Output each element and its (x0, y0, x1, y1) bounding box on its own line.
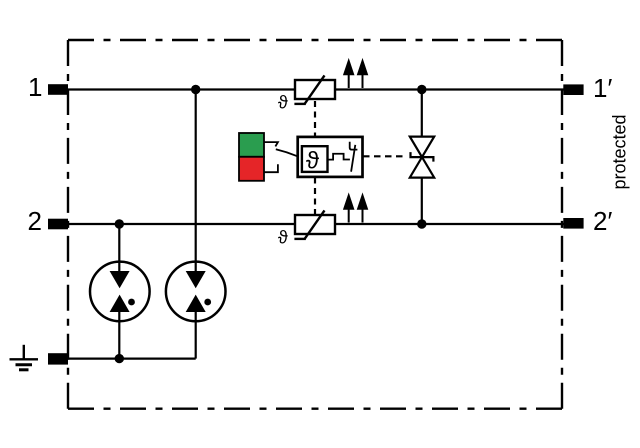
terminal 1 (48, 84, 68, 95)
svg-text:2′: 2′ (593, 206, 612, 236)
label 2' (593, 206, 612, 236)
label 1 (28, 72, 42, 102)
svg-text:ϑ: ϑ (278, 93, 288, 113)
svg-text:1: 1 (28, 72, 42, 102)
dashed link monitor to suppressor diode (363, 155, 407, 157)
junction dot line1/diode branch (417, 85, 426, 94)
indicator switch blade to monitor (276, 149, 298, 156)
wire: line 1 down through line 2 to right gas discharge tube and ground bus (195, 90, 197, 359)
enclosure boundary (dash-dot) (68, 40, 562, 409)
wire: suppressor diode branch line1-line2 (421, 90, 423, 225)
junction dot line2/left GDT branch (115, 219, 124, 228)
indicator contact (green side) (264, 142, 278, 146)
surge arrows at line 1 (344, 60, 368, 89)
value label theta (varistor 2) (278, 228, 288, 248)
wire line 1 (net 1 to 1') (67, 88, 564, 90)
label 2 (28, 206, 42, 236)
value label theta (varistor 1) (278, 93, 288, 113)
status indicator (green/red) (239, 133, 264, 181)
junction dot ground bus/left GDT (115, 354, 124, 363)
svg-text:2: 2 (28, 206, 42, 236)
svg-text:1′: 1′ (593, 73, 612, 103)
terminal 2' (563, 218, 583, 229)
wire line 2 (net 2 to 2') (67, 223, 564, 225)
junction dot line2/diode branch (417, 219, 426, 228)
terminal 2 (48, 219, 68, 230)
gas discharge tube G2 (line 1 to ground) (166, 262, 226, 322)
dashed link varistor 2 to monitor (314, 178, 316, 215)
ground terminal (48, 353, 68, 364)
junction dot line1/branch at x=195.7 (191, 85, 200, 94)
dashed link varistor 1 to monitor (314, 101, 316, 137)
svg-text:ϑ: ϑ (306, 148, 319, 175)
surge arrows at line 2 (344, 194, 368, 223)
terminal 1' (563, 84, 583, 95)
label 1' (593, 73, 612, 103)
suppressor diode (bidirectional) (410, 137, 434, 178)
varistor (thermally protected) on line 2 (294, 210, 335, 239)
wire ground bus (67, 358, 196, 360)
varistor (thermally protected) on line 1 (294, 75, 335, 104)
svg-text:ϑ: ϑ (278, 228, 288, 248)
svg-text:protected: protected (610, 114, 630, 189)
thermal disconnect monitor U1 (298, 137, 363, 177)
ground symbol (10, 345, 39, 370)
indicator contact (red side, open) (264, 164, 278, 172)
wire: line 2 down to left gas discharge tube and ground bus (118, 224, 120, 359)
gas discharge tube G1 (line 2 to ground) (90, 262, 150, 322)
label protected (610, 114, 630, 189)
